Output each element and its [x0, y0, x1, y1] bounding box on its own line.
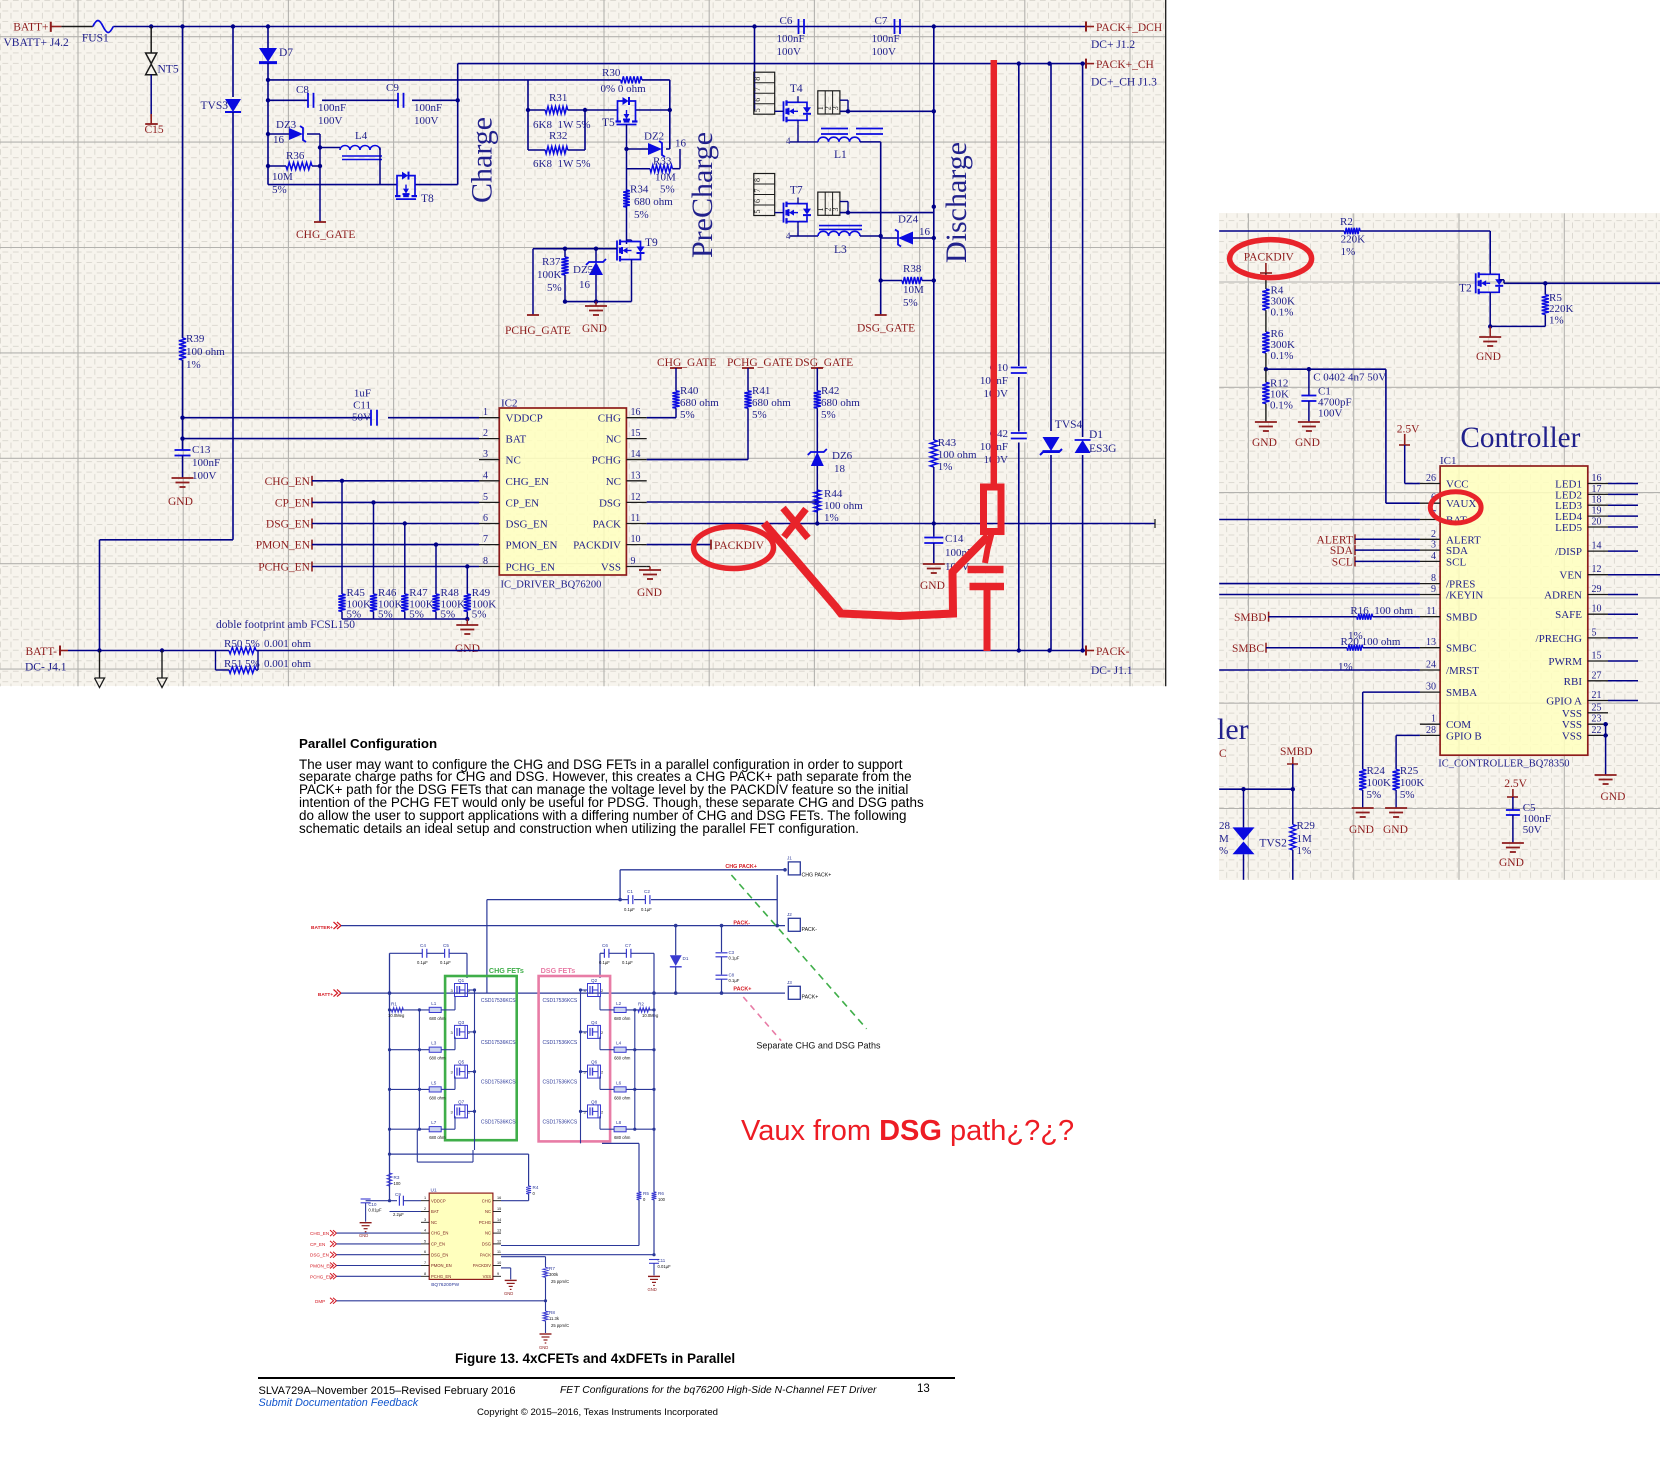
label VBATT+ J4.2: [4, 37, 70, 49]
annotation red battery stem: [984, 589, 991, 651]
wire column TVS4: [1050, 64, 1052, 651]
svg-text:PACK+: PACK+: [802, 995, 819, 1001]
svg-text:PACK: PACK: [480, 1252, 491, 1257]
svg-text:3: 3: [831, 208, 840, 212]
figure resistor R5 col: [501, 1191, 649, 1246]
svg-text:PACK: PACK: [593, 519, 621, 531]
svg-text:NC: NC: [431, 1220, 437, 1225]
figure resistor R2: [638, 1002, 659, 1019]
transistor T8: [395, 172, 434, 205]
zener DZ2: [627, 131, 687, 158]
svg-text:SMBC: SMBC: [1232, 643, 1264, 655]
svg-text:R34: R34: [630, 184, 649, 196]
footer copyright: [477, 1407, 718, 1418]
svg-text:27: 27: [1592, 670, 1602, 681]
svg-text:/DISP: /DISP: [1555, 546, 1582, 558]
svg-text:14: 14: [631, 449, 641, 460]
svg-text:PACK+: PACK+: [733, 987, 751, 993]
svg-text:SCL: SCL: [1332, 556, 1353, 568]
figure BAT wire: [390, 1211, 422, 1213]
svg-text:M: M: [1219, 833, 1229, 845]
svg-text:IC2: IC2: [501, 398, 518, 410]
svg-text:R39: R39: [186, 333, 205, 345]
ground VSS pin9: [637, 567, 662, 600]
svg-text:VEN: VEN: [1559, 570, 1582, 582]
figure IC U1 box: [429, 1188, 493, 1289]
svg-text:DZ6: DZ6: [832, 450, 853, 462]
svg-text:5: 5: [753, 210, 762, 214]
svg-text:1%: 1%: [824, 512, 839, 524]
svg-text:100 ohm: 100 ohm: [938, 449, 977, 461]
svg-text:Q1: Q1: [458, 978, 465, 983]
figure gate bus left: [418, 1008, 421, 1130]
svg-text:100nF: 100nF: [414, 102, 442, 114]
svg-text:3: 3: [483, 449, 488, 460]
svg-text:CP_EN: CP_EN: [310, 1242, 325, 1247]
svg-text:100V: 100V: [414, 115, 439, 127]
svg-text:100nF: 100nF: [318, 102, 346, 114]
figure label CHG PACK+ red: [725, 864, 757, 870]
svg-text:5%: 5%: [903, 297, 918, 309]
footer left: [259, 1385, 516, 1397]
wire pulldown bus: [342, 617, 469, 621]
figure C4 C5 row: [390, 943, 468, 1201]
resistor R33: [627, 149, 681, 184]
figure gnd C10: [359, 1223, 372, 1238]
capacitor C11: [352, 388, 377, 426]
svg-text:D7: D7: [279, 47, 293, 59]
annotation red battery top bar: [968, 566, 1004, 574]
resistor R49: [464, 567, 497, 621]
svg-text:100V: 100V: [872, 46, 897, 58]
annotation red resistor box: [984, 487, 1002, 532]
svg-text:0.001 ohm: 0.001 ohm: [264, 658, 312, 670]
svg-text:13: 13: [497, 1229, 501, 1233]
svg-text:1%: 1%: [1549, 315, 1564, 327]
svg-text:C 0402 4n7 50V: C 0402 4n7 50V: [1313, 372, 1386, 384]
wire MRST: [1219, 669, 1420, 671]
svg-text:GND: GND: [1252, 437, 1277, 449]
svg-text:5%: 5%: [660, 184, 675, 196]
svg-text:C7: C7: [625, 943, 631, 948]
wire pack column: [933, 27, 935, 441]
svg-text:680 ohm: 680 ohm: [680, 397, 719, 409]
svg-text:L7: L7: [431, 1120, 437, 1125]
svg-text:CHG_EN: CHG_EN: [506, 476, 549, 488]
svg-text:L3: L3: [834, 244, 847, 256]
svg-text:680 ohm: 680 ohm: [429, 1135, 446, 1140]
svg-text:16: 16: [273, 134, 285, 146]
wire R31R32 right riser: [583, 108, 587, 150]
label C0402: [1313, 372, 1386, 384]
section label Discharge: [940, 142, 973, 263]
svg-text:LED5: LED5: [1555, 522, 1582, 534]
svg-text:4: 4: [424, 1229, 426, 1233]
port ALERT: [1317, 534, 1420, 546]
svg-text:DSG: DSG: [599, 497, 621, 509]
svg-text:TVS3: TVS3: [201, 100, 229, 112]
svg-text:VAUX: VAUX: [1446, 498, 1476, 510]
svg-text:10: 10: [1592, 604, 1602, 615]
ground pulldowns: [455, 619, 480, 655]
svg-text:/MRST: /MRST: [1446, 665, 1479, 677]
footer rule: [258, 1377, 955, 1379]
annotation red vertical line: [991, 60, 998, 487]
figure resistor R6 col: [501, 993, 666, 1256]
svg-text:VSS: VSS: [1562, 719, 1582, 731]
svg-text:680 ohm: 680 ohm: [429, 1056, 446, 1061]
svg-text:25 ppm/C: 25 ppm/C: [551, 1279, 569, 1284]
tvs diode TVS4: [1040, 419, 1083, 455]
svg-text:C3: C3: [729, 950, 735, 955]
svg-text:BATT+: BATT+: [318, 992, 333, 998]
svg-text:CHG_EN: CHG_EN: [265, 476, 311, 488]
svg-text:25 ppm/C: 25 ppm/C: [551, 1323, 569, 1328]
svg-text:ADREN: ADREN: [1544, 590, 1582, 602]
figure label PACK+ red: [733, 987, 751, 993]
capacitor C5: [1506, 797, 1551, 843]
svg-text:1: 1: [483, 407, 488, 418]
svg-text:TVS2: TVS2: [1259, 838, 1287, 850]
svg-text:100 ohm: 100 ohm: [824, 500, 863, 512]
port C15: [145, 75, 164, 136]
IC2 pins: [479, 407, 647, 573]
svg-text:SCL: SCL: [1446, 556, 1466, 568]
wire GPIOB: [1396, 735, 1420, 769]
ground R25: [1383, 808, 1408, 836]
svg-text:GND: GND: [1349, 824, 1374, 836]
svg-text:11: 11: [497, 1250, 501, 1254]
resistor R34: [623, 184, 674, 222]
svg-text:CHG_GATE: CHG_GATE: [657, 357, 716, 369]
svg-text:R50 5%: R50 5%: [224, 638, 260, 650]
svg-text:GPIO A: GPIO A: [1546, 696, 1582, 708]
svg-text:680 ohm: 680 ohm: [634, 196, 673, 208]
svg-text:13: 13: [631, 470, 641, 481]
capacitor C6: [777, 15, 805, 58]
svg-text:3: 3: [424, 1218, 426, 1222]
annotation red link to battery: [985, 532, 992, 564]
resistor R48: [432, 545, 465, 621]
svg-text:680 ohm: 680 ohm: [614, 1016, 631, 1021]
wire PACK row: [647, 519, 1155, 528]
svg-text:3: 3: [451, 1070, 454, 1075]
svg-text:16: 16: [497, 1196, 501, 1200]
svg-text:10M: 10M: [903, 284, 924, 296]
svg-text:GND: GND: [1499, 857, 1524, 869]
svg-text:R51 5%: R51 5%: [224, 658, 260, 670]
svg-text:CSD17536KCS: CSD17536KCS: [481, 1080, 516, 1086]
svg-text:16: 16: [579, 279, 591, 291]
label R28 fragment: [1219, 820, 1231, 857]
svg-text:%: %: [1219, 845, 1228, 857]
svg-text:BQ76200PW: BQ76200PW: [431, 1282, 459, 1288]
svg-text:5: 5: [424, 1239, 426, 1243]
svg-text:R41: R41: [752, 385, 770, 397]
svg-text:16: 16: [919, 226, 931, 238]
wire row C8C9: [268, 98, 460, 102]
svg-text:CP_EN: CP_EN: [431, 1242, 445, 1247]
svg-text:R40: R40: [680, 385, 699, 397]
svg-text:R29: R29: [1297, 820, 1316, 832]
svg-text:J3: J3: [787, 980, 792, 985]
svg-text:COM: COM: [1446, 719, 1471, 731]
annotation red battery bottom bar: [970, 583, 1005, 591]
svg-text:R20 100 ohm: R20 100 ohm: [1341, 636, 1401, 648]
wire VEN right: [1608, 574, 1660, 576]
svg-text:DZ4: DZ4: [898, 214, 919, 226]
resistor R36: [268, 150, 320, 196]
svg-text:0: 0: [533, 1191, 536, 1196]
svg-text:DSG: DSG: [482, 1242, 491, 1247]
transistor T5: [602, 97, 638, 129]
svg-text:0.1%: 0.1%: [1271, 307, 1294, 319]
wire L1 down bus: [879, 142, 883, 315]
figure diode D1: [670, 926, 689, 994]
svg-text:5: 5: [1592, 627, 1597, 638]
svg-text:C2: C2: [644, 889, 650, 894]
port 2.5V top: [1397, 424, 1420, 446]
svg-text:16: 16: [631, 407, 641, 418]
svg-text:3: 3: [831, 106, 840, 110]
svg-text:PACK+_CH: PACK+_CH: [1096, 59, 1154, 71]
footer link: [259, 1397, 419, 1409]
svg-text:14: 14: [497, 1218, 501, 1222]
junction dots PACK+_CH rail: [1017, 61, 1085, 65]
svg-text:DSG_GATE: DSG_GATE: [857, 323, 915, 335]
resistor R2: [1340, 216, 1365, 258]
svg-text:C15: C15: [145, 124, 164, 136]
svg-text:R7: R7: [549, 1266, 555, 1271]
svg-text:D1: D1: [1089, 429, 1103, 441]
svg-text:L1: L1: [834, 149, 847, 161]
svg-text:21: 21: [1592, 690, 1602, 701]
document title Parallel Configuration: [299, 736, 437, 751]
svg-text:1: 1: [1431, 714, 1436, 725]
figure BATTER wire: [311, 922, 785, 931]
wire divider mid: [1264, 367, 1386, 371]
svg-text:1%: 1%: [1341, 246, 1356, 258]
svg-text:GND: GND: [1295, 437, 1320, 449]
svg-text:BAT: BAT: [506, 434, 527, 446]
svg-text:680 ohm: 680 ohm: [614, 1095, 631, 1100]
svg-text:0.01µF: 0.01µF: [658, 1264, 672, 1269]
port PACKDIV: [647, 540, 765, 552]
svg-text:ler: ler: [1217, 713, 1249, 746]
svg-text:CHG_EN: CHG_EN: [310, 1231, 329, 1236]
svg-text:NC: NC: [485, 1209, 491, 1214]
svg-text:0.1µF: 0.1µF: [729, 956, 740, 961]
svg-text:220K: 220K: [1549, 303, 1574, 315]
port DSG_GATE top: [795, 357, 853, 391]
svg-text:CHG_EN: CHG_EN: [431, 1231, 448, 1236]
svg-text:DSG_GATE: DSG_GATE: [795, 357, 853, 369]
resistor R24: [1359, 765, 1391, 808]
svg-text:1uF: 1uF: [354, 388, 371, 400]
resistor R43: [930, 437, 977, 524]
figure port DMP: [315, 1298, 547, 1304]
svg-text:100K: 100K: [1400, 777, 1425, 789]
svg-text:R45: R45: [347, 587, 366, 599]
svg-text:CSD17536KCS: CSD17536KCS: [481, 998, 516, 1004]
figure caption: [455, 1351, 735, 1366]
schematic panel A background: [0, 0, 1166, 686]
svg-text:L5: L5: [431, 1080, 437, 1085]
svg-text:0% 0 ohm: 0% 0 ohm: [601, 83, 647, 95]
resistor R32: [528, 130, 591, 170]
svg-text:4: 4: [1431, 551, 1436, 562]
svg-text:R1: R1: [391, 1002, 397, 1007]
figure capacitor C11: [649, 1258, 671, 1275]
svg-text:19: 19: [1592, 506, 1602, 517]
svg-text:2.5V: 2.5V: [1504, 778, 1527, 790]
svg-text:11: 11: [631, 513, 641, 524]
transformer L1: [786, 124, 884, 161]
offsheet arrow 2: [157, 651, 167, 688]
svg-text:0.1%: 0.1%: [1270, 400, 1293, 412]
annotation red X mark: [783, 508, 808, 538]
svg-text:17: 17: [1592, 484, 1602, 495]
svg-text:GND: GND: [582, 323, 607, 335]
svg-text:3: 3: [451, 1030, 454, 1035]
svg-text:C11: C11: [658, 1258, 666, 1263]
svg-text:R38: R38: [903, 263, 922, 275]
svg-text:12: 12: [497, 1239, 501, 1243]
svg-text:GND: GND: [359, 1233, 368, 1238]
junction dots BATT+ rail: [149, 24, 936, 28]
svg-text:VSS: VSS: [1562, 708, 1582, 720]
svg-text:100nF: 100nF: [777, 33, 805, 45]
resistor R6: [1262, 328, 1295, 369]
svg-text:GND: GND: [920, 580, 945, 592]
port PCHG_EN: [258, 562, 479, 574]
capacitor C7: [872, 15, 901, 58]
svg-text:9: 9: [631, 556, 636, 567]
svg-text:PACKDIV: PACKDIV: [573, 540, 621, 552]
svg-text:CHG PACK+: CHG PACK+: [802, 873, 832, 879]
svg-text:1%: 1%: [186, 359, 201, 371]
svg-text:T8: T8: [421, 193, 434, 205]
resistor R45: [338, 481, 371, 621]
svg-text:SMBA: SMBA: [1446, 687, 1477, 699]
svg-text:0.001 ohm: 0.001 ohm: [264, 638, 312, 650]
svg-text:0.1µF: 0.1µF: [641, 907, 652, 912]
svg-text:R37: R37: [542, 256, 561, 268]
figure resistor R3: [387, 1173, 401, 1202]
svg-text:GND: GND: [539, 1345, 548, 1350]
svg-text:R30: R30: [602, 67, 621, 79]
svg-text:12: 12: [631, 492, 641, 503]
svg-text:Separate CHG and DSG Paths: Separate CHG and DSG Paths: [756, 1041, 881, 1051]
svg-text:GND: GND: [648, 1287, 657, 1292]
svg-text:2: 2: [483, 428, 488, 439]
resistor R41: [647, 385, 792, 460]
svg-text:5%: 5%: [547, 282, 562, 294]
svg-text:PreCharge: PreCharge: [686, 132, 719, 258]
svg-text:GND: GND: [1383, 824, 1408, 836]
svg-text:23: 23: [1592, 714, 1602, 725]
svg-text:VDDCP: VDDCP: [431, 1198, 446, 1203]
resistor R12: [1262, 369, 1293, 422]
wire SMBD bottom: [1291, 764, 1295, 825]
svg-text:PACKDIV: PACKDIV: [473, 1263, 491, 1268]
svg-text:DC- J4.1: DC- J4.1: [25, 662, 67, 674]
svg-text:CHG: CHG: [482, 1198, 491, 1203]
junction T4 to PACK bus: [932, 109, 936, 113]
svg-text:CHG PACK+: CHG PACK+: [725, 864, 757, 870]
port CHG_GATE top: [657, 357, 716, 391]
svg-text:10.0Meg: 10.0Meg: [642, 1013, 659, 1018]
svg-text:1: 1: [424, 1196, 426, 1200]
svg-text:C11: C11: [353, 400, 371, 412]
svg-text:L1: L1: [431, 1001, 437, 1006]
port BATT-: [25, 646, 68, 659]
svg-text:PCHG_EN: PCHG_EN: [506, 562, 556, 574]
svg-text:L4: L4: [355, 130, 368, 142]
wire T2 source gnd: [1488, 292, 1545, 337]
svg-text:0.1µF: 0.1µF: [729, 978, 740, 983]
svg-text:10: 10: [497, 1261, 501, 1265]
svg-text:VDDCP: VDDCP: [506, 413, 543, 425]
wire DSG row: [647, 500, 820, 504]
svg-text:L4: L4: [616, 1041, 622, 1046]
svg-text:/PRECHG: /PRECHG: [1536, 633, 1583, 645]
wire BAT long: [1219, 519, 1420, 521]
svg-text:5: 5: [483, 492, 488, 503]
svg-text:5%: 5%: [1400, 789, 1415, 801]
svg-text:9: 9: [497, 1272, 499, 1276]
svg-text:L8: L8: [616, 1120, 622, 1125]
svg-text:DC+_CH J1.3: DC+_CH J1.3: [1091, 77, 1157, 89]
tvs diode TVS3: [201, 27, 242, 540]
svg-text:0.1µF: 0.1µF: [440, 960, 451, 965]
resistor R29: [1290, 820, 1316, 880]
svg-text:C9: C9: [395, 1192, 401, 1197]
svg-text:2: 2: [601, 1109, 604, 1114]
svg-text:PWRM: PWRM: [1548, 656, 1582, 668]
svg-text:R5: R5: [643, 1191, 649, 1196]
svg-text:1%: 1%: [1338, 661, 1353, 673]
svg-text:SDA: SDA: [1330, 545, 1354, 557]
wire VAUX feed: [1386, 369, 1420, 503]
svg-text:U1: U1: [431, 1188, 437, 1194]
port CHG_GATE: [296, 222, 355, 241]
svg-text:2: 2: [601, 1070, 604, 1075]
svg-text:J1: J1: [787, 856, 792, 861]
resistor R47: [401, 524, 434, 621]
svg-text:Controller: Controller: [1460, 422, 1580, 454]
svg-text:7: 7: [753, 189, 762, 193]
figure EN ports: [310, 1230, 421, 1279]
svg-text:R4: R4: [533, 1185, 539, 1190]
resistor R51: [216, 651, 312, 674]
junction dots BATT- rail: [97, 648, 1085, 652]
svg-text:0.1%: 0.1%: [1271, 350, 1294, 362]
tvs diode TVS2: [1233, 789, 1288, 880]
port PACKDIV B: [1244, 252, 1295, 274]
annotation text Vaux: [741, 1117, 1074, 1146]
svg-text:29: 29: [1592, 584, 1602, 595]
wire T5 row: [585, 109, 670, 111]
svg-text:IC_CONTROLLER_BQ78350: IC_CONTROLLER_BQ78350: [1438, 759, 1569, 770]
svg-text:10M: 10M: [655, 172, 676, 184]
footer page number: [917, 1383, 930, 1395]
svg-text:26: 26: [1426, 473, 1436, 484]
figure pink dashed path: [743, 997, 781, 1041]
svg-text:6: 6: [753, 199, 762, 203]
svg-text:PACK-: PACK-: [1096, 646, 1130, 658]
svg-text:680 ohm: 680 ohm: [614, 1056, 631, 1061]
